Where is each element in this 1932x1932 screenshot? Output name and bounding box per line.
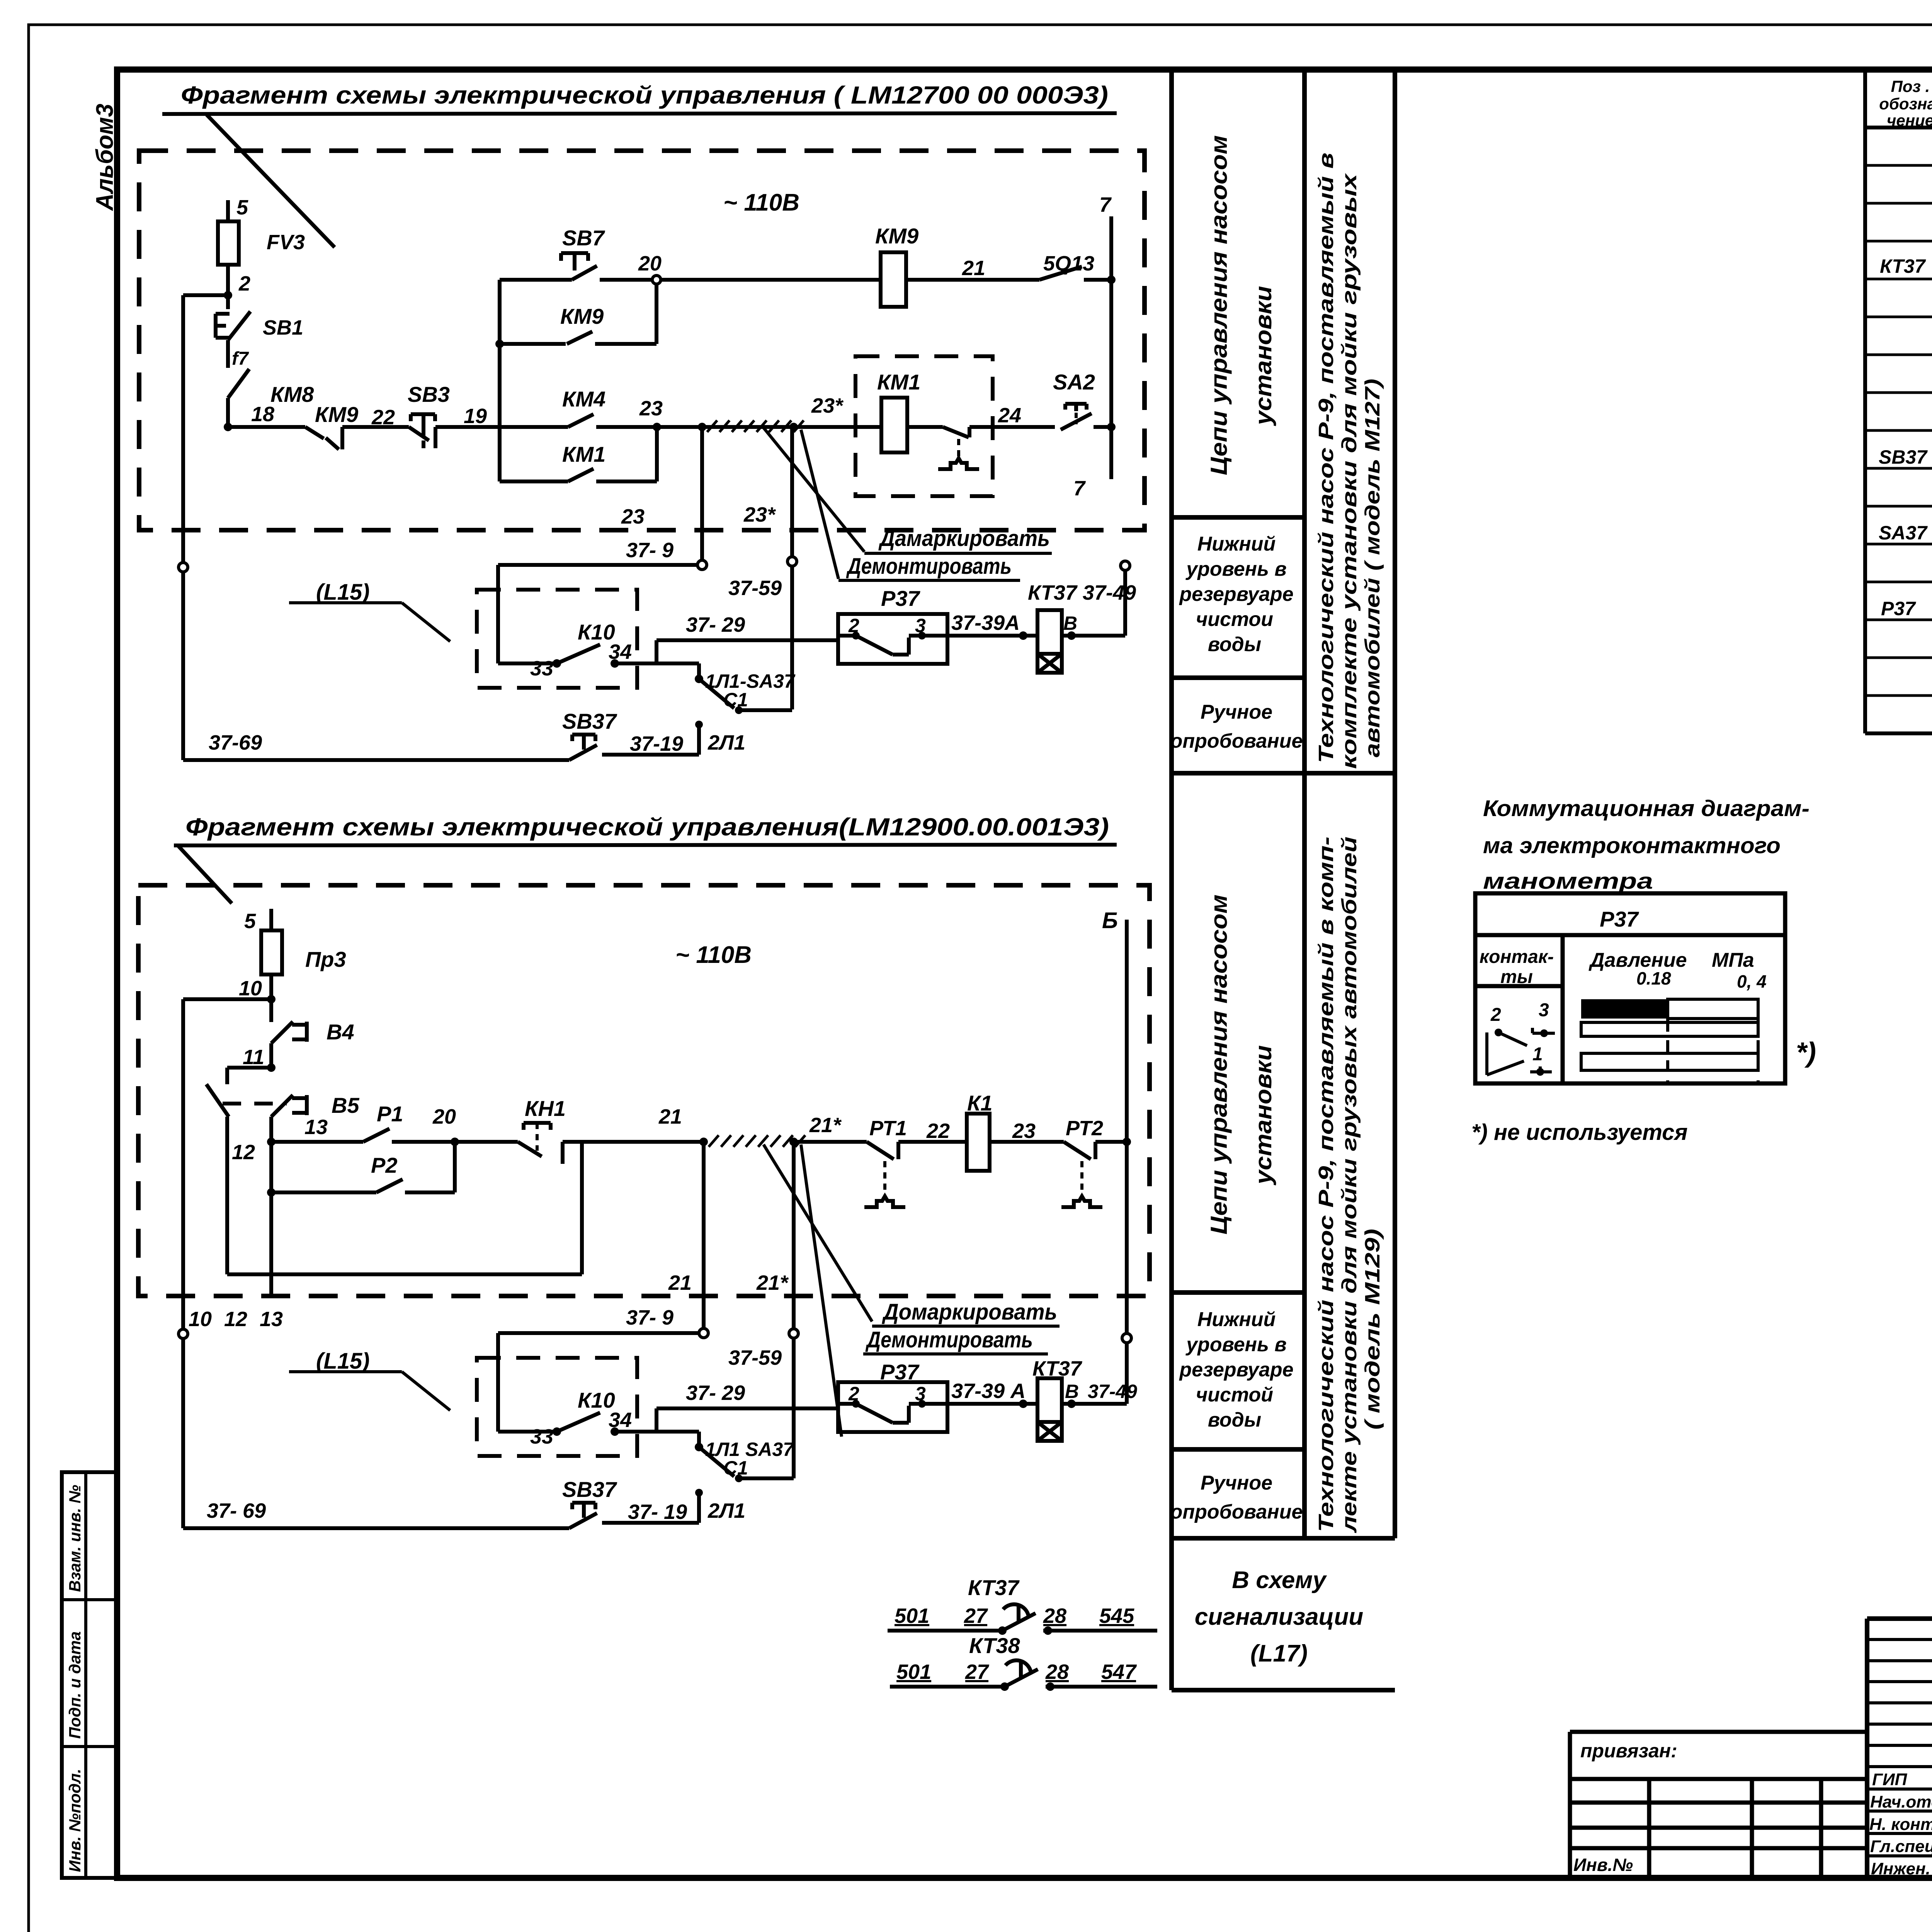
node 20 (fragment 2) bbox=[451, 1138, 459, 1146]
fragment 1 dashed boundary box bbox=[139, 151, 1145, 530]
svg-text:чистой: чистой bbox=[1196, 1384, 1273, 1406]
svg-text:привязан:: привязан: bbox=[1580, 1740, 1677, 1762]
svg-text:Р37: Р37 bbox=[881, 586, 920, 611]
svg-text:Нач.отд.: Нач.отд. bbox=[1870, 1793, 1932, 1811]
svg-text:КМ9: КМ9 bbox=[315, 402, 358, 427]
svg-text:12: 12 bbox=[224, 1308, 247, 1331]
solid wire box L15 (fragment 2) bbox=[496, 1333, 500, 1432]
breaker В4 bbox=[269, 999, 273, 1022]
svg-text:19: 19 bbox=[464, 405, 487, 428]
svg-text:2Л1: 2Л1 bbox=[707, 1499, 745, 1522]
svg-text:автомобилей ( модель М127): автомобилей ( модель М127) bbox=[1361, 379, 1384, 757]
svg-text:Р37: Р37 bbox=[1600, 907, 1639, 931]
svg-text:уровень в: уровень в bbox=[1185, 1333, 1287, 1356]
pushbutton SB1 bbox=[226, 295, 230, 309]
svg-text:34: 34 bbox=[609, 640, 632, 663]
svg-text:37-59: 37-59 bbox=[728, 1346, 782, 1369]
middle classification band grid bbox=[1172, 70, 1395, 1690]
svg-text:РТ2: РТ2 bbox=[1066, 1117, 1103, 1140]
svg-text:Поз .: Поз . bbox=[1891, 77, 1930, 95]
title block left grid bbox=[1867, 1619, 1932, 1878]
svg-text:опробование: опробование bbox=[1170, 730, 1303, 752]
svg-text:Цепи управления насосом: Цепи управления насосом bbox=[1206, 135, 1232, 475]
svg-text:37-39А: 37-39А bbox=[951, 611, 1020, 634]
svg-text:0.18: 0.18 bbox=[1636, 968, 1671, 988]
svg-text:34: 34 bbox=[609, 1408, 632, 1432]
svg-text:21: 21 bbox=[658, 1105, 682, 1128]
svg-text:С1: С1 bbox=[723, 1457, 748, 1479]
svg-text:11: 11 bbox=[243, 1046, 264, 1069]
svg-text:чение: чение bbox=[1887, 111, 1932, 129]
svg-text:SB7: SB7 bbox=[562, 226, 605, 250]
node В (fragment 2) bbox=[1067, 1400, 1076, 1408]
wire down to 1Л1 bbox=[697, 663, 701, 679]
wire 34 out (fragment 2) bbox=[615, 1430, 699, 1434]
svg-text:501: 501 bbox=[895, 1604, 929, 1628]
svg-text:Фрагмент схемы электрическо: Фрагмент схемы электрической управления(… bbox=[185, 813, 1109, 841]
wire to 37-49 vertical bbox=[1062, 634, 1125, 638]
P37 bar outline lower bbox=[1581, 1053, 1758, 1070]
callout leader lines to demark text bbox=[764, 428, 864, 552]
svg-text:545: 545 bbox=[1099, 1604, 1134, 1628]
svg-text:0, 4: 0, 4 bbox=[1737, 971, 1767, 992]
terminal circle on Б vertical bbox=[1122, 1333, 1131, 1343]
svg-text:21: 21 bbox=[962, 257, 985, 280]
wire 37-39А (fragment 2) bbox=[947, 1402, 1037, 1406]
svg-text:37-59: 37-59 bbox=[728, 577, 782, 600]
wire fuse to node 10 bbox=[269, 975, 273, 999]
svg-text:комплекте установки для мой: комплекте установки для мойки грузовых bbox=[1338, 173, 1361, 769]
svg-text:24: 24 bbox=[998, 404, 1021, 427]
node 13 bbox=[267, 1138, 276, 1146]
svg-text:Коммутационная диаграм-: Коммутационная диаграм- bbox=[1483, 796, 1810, 821]
svg-text:Подп. и дата: Подп. и дата bbox=[66, 1631, 84, 1739]
contact Р2 branch bbox=[267, 1188, 276, 1197]
КМ1 dashed enclosure bbox=[855, 356, 993, 496]
switch SA37 (fragment 2) bbox=[699, 1447, 734, 1476]
terminal circle on V1 (fragment 2) bbox=[179, 1329, 188, 1338]
svg-text:*): *) bbox=[1796, 1037, 1816, 1068]
svg-text:Дамаркировать: Дамаркировать bbox=[878, 526, 1050, 551]
hold branch wire bbox=[227, 1272, 582, 1276]
fragment 1 title leader line bbox=[207, 115, 335, 247]
wire 37-9 bbox=[498, 563, 697, 567]
changeover to ground bbox=[907, 425, 943, 429]
svg-text:5: 5 bbox=[244, 910, 256, 933]
svg-text:манометра: манометра bbox=[1483, 869, 1653, 894]
vertical 13 down bbox=[269, 1142, 273, 1296]
svg-text:SB37: SB37 bbox=[562, 1477, 617, 1502]
terminal circle 37-59 bbox=[787, 557, 797, 566]
wire 37-9 (fragment 2) bbox=[498, 1331, 699, 1335]
wire 37-29 bbox=[656, 638, 838, 642]
svg-text:37-39 А: 37-39 А bbox=[951, 1379, 1026, 1403]
ground РТ1 bbox=[883, 1161, 886, 1196]
wire SB1 to breaker bbox=[226, 340, 230, 368]
svg-text:КМ8: КМ8 bbox=[270, 382, 314, 406]
svg-text:КТ37: КТ37 bbox=[1880, 255, 1926, 277]
svg-text:37- 69: 37- 69 bbox=[207, 1499, 266, 1522]
svg-text:Н. контр.: Н. контр. bbox=[1869, 1815, 1932, 1834]
svg-text:3: 3 bbox=[1539, 1000, 1549, 1020]
svg-text:22: 22 bbox=[926, 1119, 950, 1143]
chassis ground symbol bbox=[938, 458, 979, 469]
svg-text:28: 28 bbox=[1043, 1604, 1066, 1628]
svg-text:27: 27 bbox=[965, 1660, 990, 1684]
svg-text:SA37: SA37 bbox=[1879, 522, 1928, 544]
wire 22 bbox=[342, 425, 409, 429]
node 21 bbox=[699, 1138, 708, 1146]
node 20 terminal circle bbox=[652, 276, 661, 284]
svg-text:Ручное: Ручное bbox=[1201, 701, 1272, 723]
switch SA37 bbox=[699, 679, 734, 708]
svg-text:SB3: SB3 bbox=[408, 382, 450, 406]
svg-text:резервуаре: резервуаре bbox=[1179, 1359, 1293, 1381]
svg-text:23: 23 bbox=[621, 505, 645, 528]
svg-text:В: В bbox=[1063, 612, 1077, 634]
svg-text:РТ1: РТ1 bbox=[869, 1117, 907, 1140]
terminal circle on V1 bbox=[179, 563, 188, 572]
svg-text:33: 33 bbox=[530, 1425, 553, 1448]
row A wire to SB7 bbox=[500, 278, 572, 282]
svg-text:КТ38: КТ38 bbox=[969, 1633, 1020, 1658]
hatched wire segment 23-23* bbox=[657, 425, 881, 429]
svg-text:Р2: Р2 bbox=[371, 1153, 398, 1177]
svg-text:1Л1-SA37: 1Л1-SA37 bbox=[705, 670, 796, 692]
svg-text:Демонтировать: Демонтировать bbox=[865, 1327, 1033, 1352]
svg-text:20: 20 bbox=[432, 1105, 456, 1128]
svg-text:Р37: Р37 bbox=[1881, 598, 1916, 619]
hatched wire segment 21-21* bbox=[709, 1135, 805, 1147]
svg-text:FV3: FV3 bbox=[267, 231, 305, 254]
svg-text:( модель М129): ( модель М129) bbox=[1361, 1229, 1384, 1430]
title block outer bbox=[1867, 1619, 1932, 1878]
fragment 2 dashed boundary box bbox=[138, 885, 1150, 1296]
svg-text:обозна-: обозна- bbox=[1879, 95, 1932, 113]
svg-text:2: 2 bbox=[848, 1383, 859, 1405]
svg-text:Взам. инв. №: Взам. инв. № bbox=[66, 1485, 84, 1592]
svg-text:КТ37: КТ37 bbox=[968, 1575, 1020, 1600]
svg-text:ГИП: ГИП bbox=[1872, 1770, 1908, 1789]
svg-text:23: 23 bbox=[1012, 1119, 1036, 1143]
svg-text:Инв. №подл.: Инв. №подл. bbox=[66, 1769, 84, 1872]
svg-text:12: 12 bbox=[232, 1141, 255, 1164]
node 5 stub (fragment 2) bbox=[269, 909, 273, 930]
svg-text:10: 10 bbox=[189, 1308, 212, 1331]
svg-text:воды: воды bbox=[1208, 1409, 1261, 1431]
left vertical wire V1 (fragment 2) bbox=[181, 999, 185, 1329]
svg-text:ты: ты bbox=[1500, 967, 1533, 987]
svg-text:Альбом3: Альбом3 bbox=[92, 104, 118, 211]
node Б vertical bbox=[1122, 1138, 1131, 1146]
wire 23 (fragment 2) bbox=[990, 1140, 1064, 1144]
wire fuse to node 2 bbox=[226, 265, 230, 295]
wire node2 to left vertical bbox=[183, 293, 228, 297]
knife switch blade bbox=[206, 1084, 229, 1117]
svg-text:В5: В5 bbox=[332, 1093, 359, 1117]
stub 2Л1 (fragment 2) bbox=[697, 1490, 701, 1523]
wire 37-69 row (fragment 2) bbox=[183, 1526, 569, 1530]
svg-text:*) не используется: *) не используется bbox=[1471, 1120, 1688, 1145]
svg-text:(L17): (L17) bbox=[1250, 1640, 1308, 1667]
vertical 12 down to hold branch bbox=[225, 1117, 229, 1274]
contact Р1 bbox=[271, 1140, 363, 1144]
wire 37-59 vertical bbox=[790, 566, 794, 709]
svg-text:(L15): (L15) bbox=[316, 580, 370, 605]
svg-text:ма электроконтактного: ма электроконтактного bbox=[1483, 833, 1781, 858]
К10 dashed enclosure bbox=[477, 590, 637, 688]
wire 37-39А bbox=[947, 634, 1037, 638]
wire 21 bbox=[906, 278, 1039, 282]
svg-text:В4: В4 bbox=[327, 1020, 354, 1044]
svg-text:чистои: чистои bbox=[1196, 608, 1273, 631]
svg-text:Технологический насос Р-9, п: Технологический насос Р-9, поставляемый … bbox=[1315, 153, 1338, 763]
svg-text:27: 27 bbox=[964, 1604, 988, 1628]
node 11 bbox=[267, 1063, 276, 1072]
svg-text:20: 20 bbox=[638, 252, 662, 275]
node 2 bbox=[224, 291, 232, 299]
wire 37-19 (fragment 2) bbox=[602, 1521, 699, 1525]
stub 2Л1 bbox=[697, 721, 701, 755]
svg-text:7: 7 bbox=[1073, 477, 1086, 500]
svg-text:37-19: 37-19 bbox=[630, 732, 683, 755]
svg-text:21*: 21* bbox=[756, 1271, 789, 1294]
svg-text:Инжен.: Инжен. bbox=[1871, 1859, 1930, 1878]
svg-text:В: В bbox=[1065, 1381, 1079, 1402]
svg-text:3: 3 bbox=[915, 615, 926, 636]
wire 21 down to terminal bbox=[702, 1142, 706, 1328]
svg-text:К1: К1 bbox=[967, 1091, 993, 1115]
node 5 stub bbox=[226, 200, 230, 221]
contact 2-3 inside Р37 (fragment 2) bbox=[852, 1400, 860, 1408]
привязан table bbox=[1570, 1732, 1867, 1878]
wire 21* down to terminal bbox=[792, 1142, 796, 1329]
node on V6 row A bbox=[1107, 276, 1116, 284]
svg-text:уровень в: уровень в bbox=[1185, 558, 1287, 580]
svg-text:КМ1: КМ1 bbox=[562, 442, 605, 466]
svg-text:Гл.спец.: Гл.спец. bbox=[1870, 1837, 1932, 1856]
svg-text:резервуаре: резервуаре bbox=[1179, 583, 1293, 605]
node В bbox=[1067, 631, 1076, 640]
svg-text:SA2: SA2 bbox=[1053, 370, 1095, 394]
svg-text:Инв.№: Инв.№ bbox=[1573, 1855, 1633, 1875]
svg-text:7: 7 bbox=[1099, 193, 1112, 216]
svg-text:37- 9: 37- 9 bbox=[626, 1306, 673, 1329]
svg-text:КМ9: КМ9 bbox=[560, 304, 604, 328]
КМ9 latch row B bbox=[500, 342, 566, 346]
P37 bar shelf bbox=[1581, 1022, 1758, 1036]
terminal circle 37-9 bbox=[697, 560, 707, 570]
svg-text:МПа: МПа bbox=[1712, 949, 1754, 971]
wire 22 (fragment 2) bbox=[898, 1140, 967, 1144]
svg-text:В схему: В схему bbox=[1232, 1567, 1327, 1594]
svg-text:28: 28 bbox=[1045, 1660, 1069, 1684]
svg-text:установки: установки bbox=[1250, 286, 1276, 426]
svg-text:КМ9: КМ9 bbox=[875, 224, 918, 248]
breaker В5 bbox=[271, 1095, 293, 1117]
svg-text:Нижний: Нижний bbox=[1197, 1308, 1276, 1331]
svg-text:Ручное: Ручное bbox=[1201, 1472, 1272, 1494]
svg-text:23*: 23* bbox=[743, 503, 776, 526]
wire 23 down from node23 area bbox=[700, 427, 704, 560]
svg-text:2: 2 bbox=[238, 272, 250, 295]
svg-text:13: 13 bbox=[304, 1116, 328, 1139]
node 23 bbox=[653, 423, 661, 431]
parts list table grid bbox=[1865, 70, 1932, 733]
vertical V3 bbox=[498, 280, 502, 481]
svg-text:лекте установки для мойки: лекте установки для мойки грузовых автом… bbox=[1338, 837, 1361, 1534]
svg-text:Р1: Р1 bbox=[377, 1102, 403, 1126]
wire SB7 to node 20 bbox=[600, 278, 652, 282]
svg-text:Пр3: Пр3 bbox=[305, 947, 346, 971]
svg-text:SB37: SB37 bbox=[562, 709, 617, 733]
svg-text:~ 110В: ~ 110В bbox=[723, 189, 799, 216]
left margin stamp table bbox=[62, 1472, 117, 1878]
node 33 (fragment 2) bbox=[553, 1427, 561, 1436]
fuse Пр3 bbox=[261, 930, 282, 975]
svg-text:воды: воды bbox=[1208, 633, 1261, 656]
svg-text:(L15): (L15) bbox=[316, 1349, 370, 1374]
svg-text:13: 13 bbox=[260, 1308, 283, 1331]
wire 37-19 bbox=[602, 753, 699, 757]
svg-text:3: 3 bbox=[915, 1383, 926, 1405]
left vertical wire V1 bbox=[181, 295, 185, 563]
fragment 2 title leader line bbox=[179, 846, 232, 903]
node SA2 out bbox=[1107, 423, 1116, 431]
svg-text:SB1: SB1 bbox=[263, 316, 303, 339]
wire 23* down bbox=[790, 427, 794, 557]
wire 34 out bbox=[615, 662, 699, 665]
svg-text:1Л1 SA37: 1Л1 SA37 bbox=[705, 1439, 794, 1460]
P37 diagram table bbox=[1475, 893, 1785, 1083]
contact 2-3 inside Р37 bbox=[852, 632, 860, 639]
svg-text:501: 501 bbox=[896, 1660, 931, 1684]
svg-text:10: 10 bbox=[239, 977, 262, 1000]
svg-text:21: 21 bbox=[668, 1271, 692, 1294]
P37 bar filled bbox=[1581, 999, 1668, 1019]
wire coil to Б vertical bbox=[1062, 1402, 1127, 1406]
К10 dashed enclosure (fragment 2) bbox=[477, 1358, 637, 1456]
wire node10 to left vertical bbox=[183, 997, 271, 1001]
svg-text:f7: f7 bbox=[232, 349, 249, 369]
wire node20 to КМ9 coil bbox=[661, 278, 881, 282]
svg-text:~ 110В: ~ 110В bbox=[675, 942, 752, 968]
svg-text:2: 2 bbox=[848, 615, 859, 636]
svg-text:21*: 21* bbox=[809, 1114, 842, 1137]
svg-text:33: 33 bbox=[530, 657, 553, 680]
svg-text:Б: Б bbox=[1102, 908, 1118, 933]
svg-text:37- 19: 37- 19 bbox=[628, 1500, 687, 1524]
node 10 bbox=[267, 995, 276, 1003]
svg-text:22: 22 bbox=[371, 406, 395, 429]
svg-text:установки: установки bbox=[1250, 1045, 1276, 1185]
svg-text:С1: С1 bbox=[723, 689, 748, 711]
wire row C left bbox=[228, 425, 305, 429]
svg-text:2Л1: 2Л1 bbox=[707, 731, 745, 754]
svg-text:КМ4: КМ4 bbox=[562, 387, 605, 411]
terminal circle 37-49 bbox=[1121, 561, 1130, 570]
stub from node 11 bbox=[227, 1066, 271, 1070]
svg-text:Домаркировать: Домаркировать bbox=[881, 1299, 1057, 1325]
svg-text:37- 29: 37- 29 bbox=[686, 1381, 745, 1405]
svg-text:Нижний: Нижний bbox=[1197, 533, 1276, 555]
svg-text:опробование: опробование bbox=[1170, 1501, 1303, 1523]
svg-text:23: 23 bbox=[639, 397, 663, 420]
svg-text:23*: 23* bbox=[811, 394, 844, 417]
svg-text:КМ1: КМ1 bbox=[877, 370, 920, 394]
node 33 bbox=[553, 659, 561, 668]
svg-text:КТ37 37-49: КТ37 37-49 bbox=[1028, 581, 1136, 604]
node 34 bbox=[611, 659, 619, 668]
svg-text:SB37: SB37 bbox=[1879, 446, 1928, 468]
node 18 bbox=[224, 423, 232, 431]
breaker contact f7 bbox=[228, 369, 249, 398]
svg-text:Демонтировать: Демонтировать bbox=[846, 554, 1012, 579]
svg-text:сигнализации: сигнализации bbox=[1195, 1604, 1363, 1630]
svg-text:Технологический насос Р-9,: Технологический насос Р-9, поставляемый … bbox=[1315, 837, 1338, 1532]
P37 bar outline upper bbox=[1668, 999, 1758, 1019]
svg-text:2: 2 bbox=[1490, 1005, 1501, 1025]
node 34 (fragment 2) bbox=[611, 1427, 619, 1436]
svg-text:контак-: контак- bbox=[1480, 947, 1554, 967]
step up to 37-29 bbox=[655, 640, 658, 663]
svg-text:37-69: 37-69 bbox=[209, 731, 262, 754]
ground РТ2 bbox=[1080, 1161, 1083, 1196]
wire 19 bbox=[435, 425, 500, 429]
svg-text:37-49: 37-49 bbox=[1088, 1381, 1137, 1402]
wire down to 1Л1 (fragment 2) bbox=[697, 1432, 701, 1447]
fuse FV3 bbox=[218, 221, 239, 265]
contact РТ1 bbox=[794, 1140, 867, 1144]
svg-text:Фрагмент схемы электрическо: Фрагмент схемы электрической управления … bbox=[181, 81, 1108, 109]
P37 pressure ticks bbox=[1666, 1000, 1669, 1083]
mechanical link dashes bbox=[223, 1102, 287, 1105]
svg-text:547: 547 bbox=[1101, 1660, 1137, 1684]
svg-text:37- 9: 37- 9 bbox=[626, 539, 673, 562]
callout leader lines (fragment 2) bbox=[764, 1145, 872, 1321]
svg-text:Цепи управления насосом: Цепи управления насосом bbox=[1206, 895, 1232, 1235]
solid wire box L15 bbox=[496, 565, 500, 663]
svg-text:1: 1 bbox=[1532, 1044, 1543, 1065]
svg-text:37- 29: 37- 29 bbox=[686, 613, 745, 636]
svg-text:КН1: КН1 bbox=[525, 1096, 566, 1121]
wire 37-69 row bbox=[183, 758, 569, 762]
wire 37-29 (fragment 2) bbox=[656, 1406, 838, 1410]
svg-text:5: 5 bbox=[236, 196, 248, 219]
